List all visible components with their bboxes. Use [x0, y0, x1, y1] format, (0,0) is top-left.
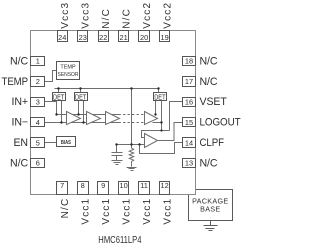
amplifier A1	[67, 112, 81, 125]
pin 19 box	[160, 31, 170, 42]
wire DET3 to bus	[158, 89, 160, 93]
op-amp U1	[145, 134, 158, 148]
pin 12 box	[160, 182, 170, 195]
pin 23 box	[78, 31, 88, 42]
node rail2-det2	[82, 121, 84, 123]
svg-text:Vcc1: Vcc1	[121, 198, 132, 225]
pin 21 box	[119, 31, 129, 42]
pin 13 box	[183, 159, 196, 168]
svg-text:Vcc1: Vcc1	[162, 198, 173, 225]
svg-text:22: 22	[99, 33, 107, 42]
pin 4 box	[31, 118, 45, 127]
svg-text:N/C: N/C	[60, 198, 71, 219]
wire DET3 tap down to inverting line	[161, 101, 163, 131]
svg-text:CLPF: CLPF	[200, 137, 225, 149]
right pin labels	[200, 55, 242, 169]
temp sensor U2	[57, 62, 80, 80]
bias box U3	[57, 137, 76, 147]
pin 15 box	[183, 118, 196, 127]
wire DET2 tap to lower rail	[83, 101, 85, 123]
top pin labels rotated	[60, 2, 173, 29]
svg-text:Vcc3: Vcc3	[80, 2, 91, 29]
svg-text:1: 1	[36, 57, 40, 66]
pin 11 box	[139, 182, 150, 195]
detector DET2	[75, 93, 88, 102]
pin 10 box	[119, 182, 129, 195]
wire op-amp output to LOGOUT pin15	[158, 123, 183, 141]
svg-text:8: 8	[81, 181, 85, 190]
pin 8 box	[78, 182, 89, 195]
svg-text:EN: EN	[13, 137, 28, 149]
dashed upper rail wire	[119, 114, 145, 116]
amplifier A4	[145, 112, 158, 125]
bottom pin labels rotated	[60, 198, 173, 225]
svg-text:Vcc2: Vcc2	[142, 2, 153, 29]
svg-text:Vcc1: Vcc1	[101, 198, 112, 225]
svg-text:LOGOUT: LOGOUT	[200, 117, 242, 129]
pin 18 box	[183, 57, 196, 66]
resistor ground	[127, 168, 137, 171]
node clpf	[138, 143, 140, 145]
node rail1-det1	[55, 113, 57, 115]
svg-text:24: 24	[58, 33, 66, 42]
log node wire	[117, 144, 145, 146]
wire VSET pin16 down	[170, 102, 183, 131]
svg-text:N/C: N/C	[10, 157, 28, 169]
chip body outline	[31, 31, 196, 195]
upper signal rail wire	[57, 114, 119, 116]
svg-text:IN+: IN+	[12, 96, 28, 108]
wire DET2 tap to upper rail	[78, 101, 80, 115]
wire pin5 to bias	[45, 142, 57, 144]
pin 14 box	[183, 138, 196, 148]
pin 6 box	[31, 159, 45, 168]
pin boxes	[31, 31, 196, 195]
node rail1-det2	[77, 113, 79, 115]
pin 2 box	[31, 77, 45, 87]
svg-text:TEMP: TEMP	[60, 65, 76, 71]
package base ground	[204, 221, 218, 231]
node cap	[115, 143, 117, 145]
svg-text:VSET: VSET	[200, 96, 228, 108]
svg-text:Vcc1: Vcc1	[142, 198, 153, 225]
inverting input wire	[142, 131, 170, 138]
svg-text:DET: DET	[53, 94, 65, 101]
svg-text:Vcc2: Vcc2	[162, 2, 173, 29]
svg-text:14: 14	[185, 138, 193, 147]
svg-text:12: 12	[160, 181, 168, 190]
pin 5 box	[31, 138, 45, 148]
svg-text:TEMP: TEMP	[2, 76, 29, 88]
node rail2-det1	[60, 121, 62, 123]
node bus-det2	[79, 87, 81, 89]
svg-text:21: 21	[119, 33, 127, 42]
svg-text:DET: DET	[75, 94, 87, 101]
pin 16 box	[183, 98, 196, 107]
svg-text:BIAS: BIAS	[61, 140, 72, 146]
pin 22 box	[99, 31, 109, 42]
svg-text:20: 20	[140, 33, 148, 42]
wire bus down to log node	[131, 89, 133, 145]
node amp4out-det3	[160, 121, 162, 123]
svg-text:6: 6	[36, 159, 40, 168]
svg-text:3: 3	[36, 98, 40, 107]
svg-text:Vcc3: Vcc3	[60, 2, 71, 29]
svg-text:23: 23	[79, 33, 87, 42]
node bus-det1	[57, 87, 59, 89]
package base box	[189, 190, 233, 221]
svg-text:DET: DET	[154, 94, 166, 101]
node bus-down	[130, 87, 132, 89]
dashed lower rail wire	[119, 122, 145, 124]
pin 24 box	[58, 31, 68, 42]
wire pin3 IN+ to upper rail	[45, 102, 57, 115]
svg-text:11: 11	[140, 181, 148, 190]
svg-text:19: 19	[160, 33, 168, 42]
svg-text:N/C: N/C	[10, 55, 28, 67]
wire amp4 output segment	[153, 122, 162, 124]
svg-text:HMC611LP4: HMC611LP4	[98, 235, 142, 246]
svg-text:7: 7	[60, 181, 64, 190]
pin 3 box	[31, 98, 45, 107]
junction dots	[55, 87, 162, 145]
svg-text:13: 13	[185, 159, 193, 168]
svg-text:2: 2	[36, 77, 40, 86]
pin 9 box	[98, 182, 109, 195]
svg-text:N/C: N/C	[200, 55, 218, 67]
svg-text:N/C: N/C	[101, 8, 112, 29]
resistor R1	[129, 145, 133, 167]
svg-text:BASE: BASE	[200, 204, 220, 213]
detector DET3	[154, 93, 167, 102]
svg-text:9: 9	[101, 181, 105, 190]
svg-text:18: 18	[185, 57, 193, 66]
svg-text:15: 15	[185, 118, 193, 127]
wire DET2 to bus	[80, 89, 82, 93]
svg-text:4: 4	[36, 118, 40, 127]
svg-text:SENSOR: SENSOR	[58, 72, 79, 78]
wire DET1 tap to lower rail	[61, 101, 63, 123]
svg-text:17: 17	[185, 77, 193, 86]
node res	[130, 143, 132, 145]
svg-text:16: 16	[185, 98, 193, 107]
svg-text:N/C: N/C	[200, 76, 218, 88]
pin 7 box	[57, 182, 68, 195]
capacitor C1	[112, 145, 123, 161]
pin 1 box	[31, 57, 45, 66]
svg-text:N/C: N/C	[121, 8, 132, 29]
node bus-det3	[157, 87, 159, 89]
wire DET1 tap to upper rail	[56, 101, 58, 115]
node rail1-det3	[154, 113, 156, 115]
wire DET1 to bus	[58, 89, 60, 93]
lower signal rail wire from pin4 IN-	[45, 122, 119, 124]
svg-text:IN−: IN−	[12, 117, 28, 129]
svg-text:10: 10	[119, 181, 127, 190]
pin 20 box	[139, 31, 150, 42]
svg-text:Vcc1: Vcc1	[80, 198, 91, 225]
amplifier A2	[87, 112, 101, 125]
wire CLPF pin14 branch	[140, 143, 183, 154]
node inv-line	[160, 129, 162, 131]
wire DET3 tap to upper rail	[155, 101, 157, 115]
pin 17 box	[183, 77, 196, 87]
capacitor ground	[112, 161, 123, 165]
amplifier A3	[106, 112, 120, 125]
detector summing bus wire	[55, 88, 159, 90]
wire pin2 to temp sensor	[45, 71, 57, 82]
svg-text:N/C: N/C	[200, 157, 218, 169]
left pin labels	[2, 55, 29, 169]
detector DET1	[53, 93, 66, 102]
svg-text:5: 5	[36, 138, 40, 147]
